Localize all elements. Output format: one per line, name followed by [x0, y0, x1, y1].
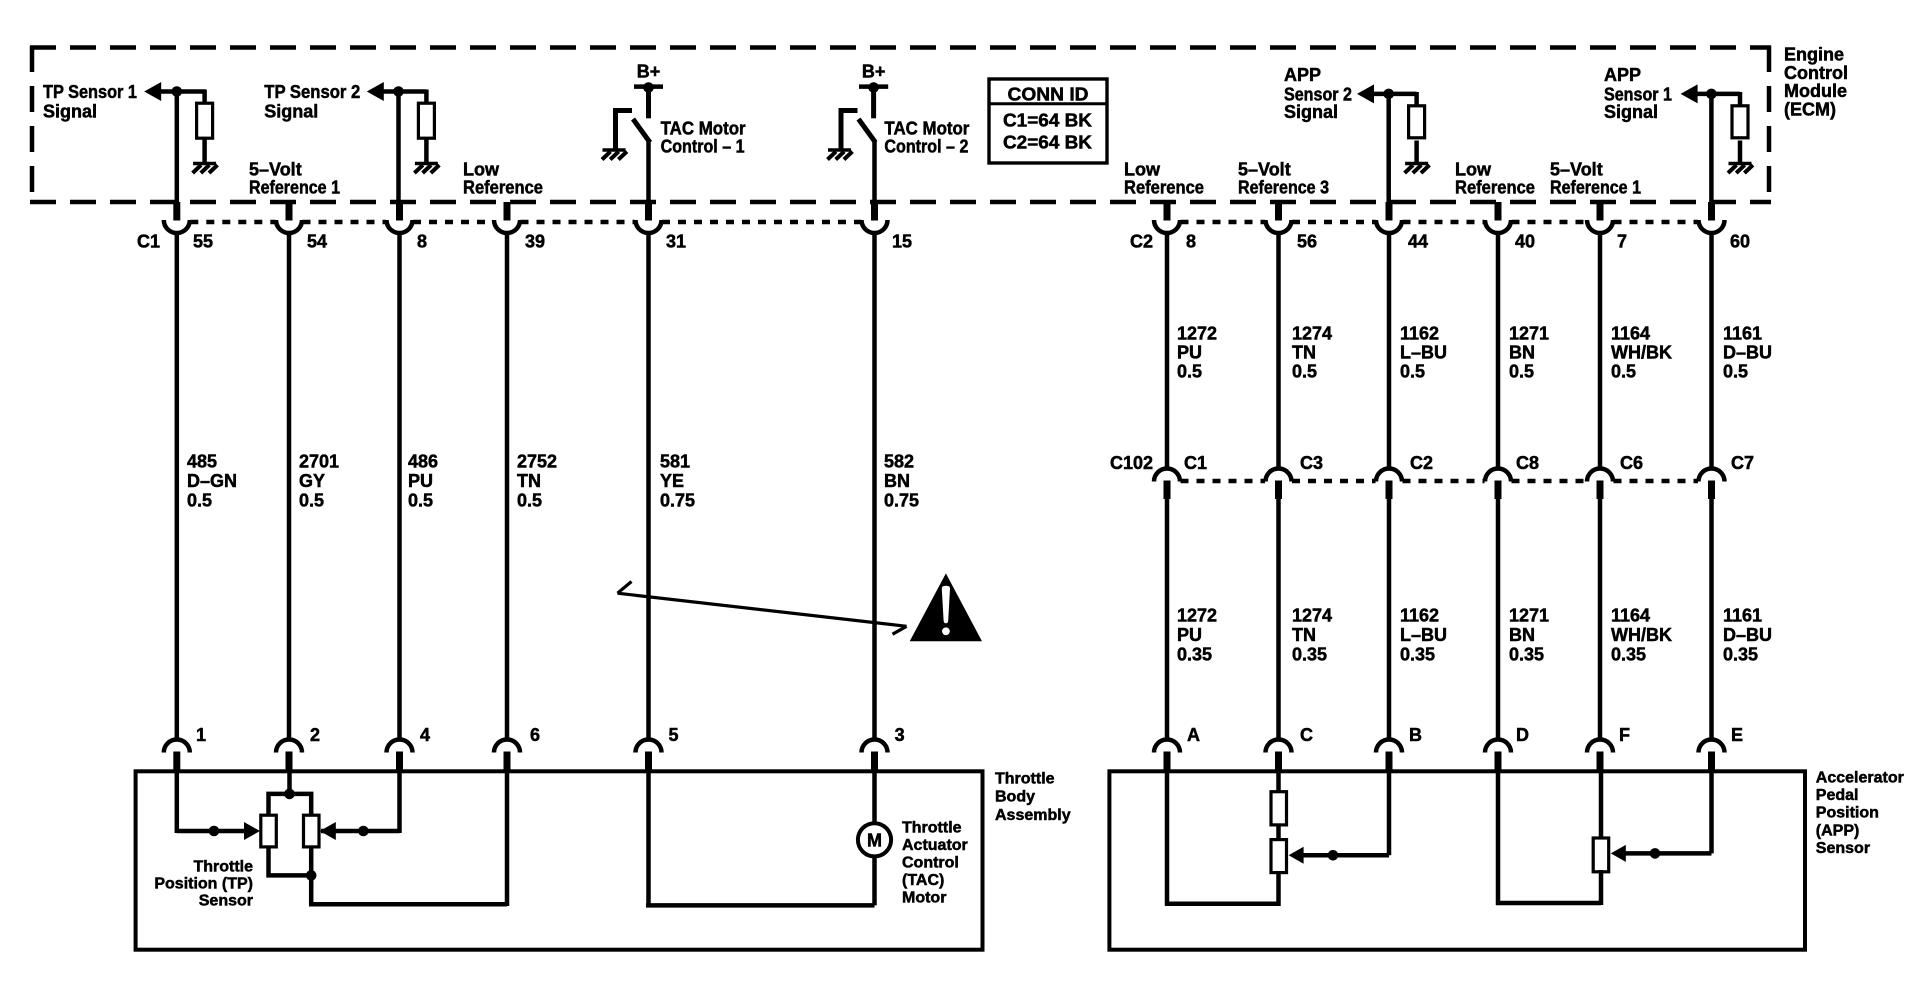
svg-text:D–GN: D–GN [187, 471, 237, 491]
svg-text:2752: 2752 [517, 452, 557, 472]
connector C2 pin 56 terminal [1266, 202, 1292, 233]
connector C1 pin 31 terminal [636, 202, 662, 233]
wire circuit 1272 upper segment [1165, 233, 1170, 469]
wire circuit 486 (pin to throttle body) [397, 233, 402, 742]
wire node 8 vertical inside ECM [396, 92, 401, 205]
junction dot node 60 [1706, 89, 1717, 100]
connector C1 pin 55 terminal [164, 202, 190, 233]
svg-text:1161: 1161 [1723, 606, 1762, 626]
connector C102 dashed interface line [1181, 479, 1699, 484]
svg-text:Signal: Signal [264, 102, 318, 122]
label wire 1274 TN 0.5 [1292, 323, 1332, 381]
svg-text:C2=64 BK: C2=64 BK [1003, 132, 1092, 152]
leader tail stroke at triangle [893, 626, 907, 634]
B+ stub contact TAC 2 [871, 87, 876, 119]
svg-text:C2: C2 [1410, 453, 1433, 473]
label 5-Volt Reference 1 (pin 7) [1550, 159, 1641, 197]
label APP Sensor 2 Signal [1284, 65, 1352, 122]
wire pin B into box [1387, 771, 1392, 855]
junction dot APP2 wiper [1328, 850, 1339, 861]
resistor R-TP1 (TP Sensor 1 pull-up) [197, 103, 213, 138]
B+ supply bar TAC 2 [859, 84, 888, 89]
label wire 485 D&#8211;GN 0.5 [187, 452, 237, 511]
svg-text:L–BU: L–BU [1400, 343, 1447, 363]
svg-text:TP Sensor 1: TP Sensor 1 [43, 82, 137, 102]
svg-text:Accelerator: Accelerator [1816, 770, 1904, 787]
label 5-Volt Reference 3 (pin 56) [1238, 159, 1329, 197]
svg-text:F: F [1619, 725, 1630, 745]
svg-text:15: 15 [892, 232, 912, 252]
svg-text:3: 3 [895, 725, 905, 745]
svg-text:PU: PU [1177, 625, 1202, 645]
svg-text:1272: 1272 [1177, 606, 1217, 626]
svg-text:C1: C1 [1184, 453, 1207, 473]
svg-text:Control – 2: Control – 2 [884, 136, 968, 156]
wire motor to bottom run [872, 855, 877, 905]
APP2 pot element rect [1271, 840, 1287, 873]
wire circuit 582 (pin to throttle body) [872, 233, 877, 742]
throttle body pin 1 terminal [164, 740, 190, 773]
svg-text:0.5: 0.5 [408, 491, 433, 511]
svg-text:0.35: 0.35 [1509, 645, 1544, 665]
label connector C1 and pin numbers [137, 232, 912, 252]
label TAC Motor Control - 2 [884, 118, 969, 156]
wire circuit 1274 upper segment [1276, 233, 1281, 469]
connector C1 pin 54 terminal [276, 202, 302, 233]
svg-text:C102: C102 [1110, 453, 1153, 473]
svg-text:0.5: 0.5 [1292, 362, 1317, 382]
throttle body pin 6 terminal [494, 740, 520, 773]
svg-text:0.35: 0.35 [1400, 645, 1435, 665]
ground chassis under switch S1 [602, 150, 627, 160]
svg-text:1272: 1272 [1177, 323, 1217, 343]
svg-text:C: C [1300, 725, 1313, 745]
svg-text:581: 581 [660, 452, 690, 472]
throttle body pin 3 terminal [862, 740, 888, 773]
junction dot TP top node 2 [284, 789, 295, 800]
svg-text:Actuator: Actuator [902, 837, 968, 854]
wire to resistor R-APP1 [1738, 92, 1743, 107]
svg-text:PU: PU [1177, 343, 1202, 363]
svg-text:Reference: Reference [463, 177, 543, 197]
svg-text:Position: Position [1816, 805, 1879, 822]
svg-text:TN: TN [1292, 343, 1316, 363]
wire circuit 1164 lower segment [1598, 498, 1603, 742]
svg-text:39: 39 [525, 232, 545, 252]
svg-text:0.5: 0.5 [187, 491, 212, 511]
svg-text:D–BU: D–BU [1723, 343, 1772, 363]
wire APP1 low reference run [1496, 901, 1601, 906]
svg-text:0.35: 0.35 [1723, 645, 1758, 665]
svg-text:C6: C6 [1620, 453, 1643, 473]
svg-text:Sensor: Sensor [1816, 840, 1870, 857]
label Low Reference (pin 8 C2) [1124, 159, 1204, 197]
svg-text:TAC Motor: TAC Motor [661, 118, 746, 138]
wire node 55 vertical inside ECM [175, 92, 180, 205]
svg-text:Body: Body [995, 789, 1035, 806]
svg-text:WH/BK: WH/BK [1611, 625, 1672, 645]
B+ supply bar TAC 1 [634, 84, 663, 89]
label wire 2701 GY 0.5 [299, 452, 339, 511]
connector C1 pin 8 terminal [387, 202, 413, 233]
svg-text:C2: C2 [1130, 232, 1153, 252]
wire circuit 1164 upper segment [1598, 233, 1603, 469]
label wire 1272 PU 0.5 [1177, 323, 1217, 381]
svg-text:2701: 2701 [299, 452, 339, 472]
junction dot B+ TAC 1 [643, 82, 654, 93]
ground chassis under R-APP2 [1405, 164, 1430, 174]
APP sensor pin F terminal [1587, 740, 1613, 773]
svg-text:M: M [867, 830, 882, 850]
switch S2 blade [859, 119, 876, 143]
TP sensor element right rect [304, 815, 320, 847]
connector C2 pin 8 terminal [1154, 202, 1180, 233]
wire pin 4 into box [397, 771, 402, 833]
wire circuit 1162 lower segment [1387, 498, 1392, 742]
label 5-Volt Reference 1 (pin 54) [249, 159, 340, 197]
wire TP Sensor 2 horizontal [383, 89, 426, 94]
svg-text:(APP): (APP) [1816, 822, 1860, 839]
svg-text:Throttle: Throttle [902, 819, 962, 836]
throttle body pin 2 terminal [276, 740, 302, 773]
wire pin 1 to TP wiper arrow [177, 829, 246, 834]
svg-text:0.5: 0.5 [1611, 362, 1636, 382]
APP sensor pin D terminal [1485, 740, 1511, 773]
wire pin 6 into box [505, 771, 510, 906]
junction dot node 44 [1383, 89, 1394, 100]
connector C2 dashed interface line [1181, 220, 1699, 225]
svg-text:Throttle: Throttle [995, 770, 1055, 787]
svg-text:C1: C1 [137, 232, 160, 252]
svg-text:D: D [1516, 725, 1529, 745]
APP2 fixed resistor rect [1271, 792, 1287, 825]
ground chassis under R-APP1 [1728, 164, 1753, 174]
svg-text:Engine: Engine [1784, 45, 1844, 65]
svg-text:5: 5 [669, 725, 679, 745]
svg-text:1274: 1274 [1292, 606, 1332, 626]
svg-text:APP: APP [1604, 65, 1641, 85]
svg-text:WH/BK: WH/BK [1611, 343, 1672, 363]
throttle body pin 5 terminal [636, 740, 662, 773]
leader line from warning symbol [618, 593, 907, 626]
svg-text:C1=64 BK: C1=64 BK [1003, 111, 1092, 131]
svg-text:2: 2 [310, 725, 320, 745]
throttle body pin 4 terminal [387, 740, 413, 773]
connector C102 pin C1 terminal [1154, 469, 1180, 499]
connector C102 pin C3 terminal [1266, 469, 1292, 499]
svg-text:Control: Control [1784, 63, 1848, 83]
wire TAC motor bottom run [646, 903, 875, 908]
TAC motor M1 circle [858, 823, 891, 856]
wire to resistor R-APP2 [1414, 92, 1419, 107]
arrow APP1 wiper (points left) [1611, 845, 1626, 862]
ground chassis under switch S2 [828, 150, 853, 160]
svg-text:BN: BN [1509, 625, 1535, 645]
wire node 44 vertical inside ECM [1386, 94, 1391, 204]
label Throttle Position (TP) Sensor [154, 858, 253, 909]
wire R-TP1 to ground [202, 138, 207, 163]
label wire 1162 L&#8211;BU 0.35 [1400, 606, 1447, 665]
connector C1 dashed interface line [190, 220, 861, 225]
svg-text:1: 1 [196, 725, 206, 745]
svg-text:Sensor: Sensor [199, 892, 253, 909]
svg-text:6: 6 [530, 725, 540, 745]
wire pin 1 into box [175, 771, 180, 833]
label wire 582 BN 0.75 [884, 452, 919, 511]
svg-text:E: E [1731, 725, 1743, 745]
svg-text:44: 44 [1408, 232, 1428, 252]
label wire 1271 BN 0.35 [1509, 606, 1549, 665]
wire circuit 1271 lower segment [1496, 498, 1501, 742]
arrow TP wiper right (points left) [320, 822, 336, 840]
label Throttle Actuator Control (TAC) Motor [902, 819, 968, 906]
wire circuit 1161 upper segment [1709, 233, 1714, 469]
APP sensor pin A terminal [1154, 740, 1180, 773]
svg-text:5–Volt: 5–Volt [1238, 159, 1291, 179]
wire pin F into box [1599, 771, 1604, 840]
svg-text:BN: BN [1509, 343, 1535, 363]
svg-text:55: 55 [193, 232, 213, 252]
CONN ID table box [989, 79, 1107, 163]
svg-text:Motor: Motor [902, 889, 946, 906]
svg-text:0.35: 0.35 [1611, 645, 1646, 665]
label wire 1164 WH/BK 0.35 [1611, 606, 1672, 665]
connector C2 pin 7 terminal [1587, 202, 1613, 233]
wire R-TP2 to ground [424, 138, 429, 163]
wire R-APP1 to ground [1738, 141, 1743, 164]
wire circuit 2701 (pin to throttle body) [287, 233, 292, 742]
wire circuit 1272 lower segment [1165, 498, 1170, 742]
ECM module dashed boundary box [30, 46, 1771, 203]
ground chassis under R-TP1 [193, 164, 218, 174]
label TP Sensor 1 Signal [43, 82, 137, 122]
svg-text:0.5: 0.5 [1509, 362, 1534, 382]
connector C2 pin 60 terminal [1699, 202, 1725, 233]
svg-text:1271: 1271 [1509, 323, 1549, 343]
svg-text:TN: TN [517, 471, 541, 491]
connector C102 pin C2 terminal [1376, 469, 1402, 499]
label wire 1274 TN 0.35 [1292, 606, 1332, 665]
svg-text:Low: Low [463, 159, 500, 179]
svg-text:0.5: 0.5 [1177, 362, 1202, 382]
warning triangle symbol [910, 573, 982, 641]
svg-text:1161: 1161 [1723, 323, 1762, 343]
label wire 486 PU 0.5 [408, 452, 438, 511]
svg-text:1162: 1162 [1400, 606, 1439, 626]
svg-text:4: 4 [420, 725, 430, 745]
svg-text:Signal: Signal [1604, 102, 1658, 122]
wire R-APP2 to ground [1414, 141, 1419, 164]
svg-text:C7: C7 [1731, 453, 1754, 473]
svg-text:Reference 1: Reference 1 [249, 177, 340, 197]
junction dot TP bottom [306, 870, 317, 881]
label Accelerator Pedal Position (APP) Sensor [1816, 770, 1904, 857]
svg-text:Reference 1: Reference 1 [1550, 177, 1641, 197]
svg-text:1164: 1164 [1611, 323, 1650, 343]
wire APP1 wiper horizontal [1624, 851, 1712, 856]
label wire 2752 TN 0.5 [517, 452, 557, 511]
wire TP low reference horizontal run [309, 902, 507, 907]
svg-text:54: 54 [307, 232, 327, 252]
junction dot TP wiper right [358, 826, 369, 837]
svg-text:0.35: 0.35 [1292, 645, 1327, 665]
svg-text:1274: 1274 [1292, 323, 1332, 343]
connector C1 pin 15 terminal [862, 202, 888, 233]
wire pin A into box [1165, 771, 1170, 906]
APP sensor pin E terminal [1699, 740, 1725, 773]
arrow TP Sensor 2 Signal (points left) [367, 82, 384, 101]
svg-text:TAC Motor: TAC Motor [884, 118, 969, 138]
TP bottom bracket [269, 846, 312, 875]
svg-text:APP: APP [1284, 65, 1321, 85]
svg-text:582: 582 [884, 452, 914, 472]
svg-text:Control: Control [902, 854, 959, 871]
APP sensor pin B terminal [1376, 740, 1402, 773]
arrow TP wiper left (points right) [244, 822, 260, 840]
svg-text:Signal: Signal [43, 102, 97, 122]
B+ stub contact TAC 1 [646, 87, 651, 119]
wire circuit 1162 upper segment [1387, 233, 1392, 469]
label wire 1162 L&#8211;BU 0.5 [1400, 323, 1447, 381]
wire between APP2 resistors [1276, 825, 1281, 841]
svg-text:60: 60 [1730, 232, 1750, 252]
wire node 15 inside ECM [872, 141, 877, 204]
label wire 1161 D&#8211;BU 0.35 [1723, 606, 1772, 665]
wire pin C into box [1276, 771, 1281, 793]
svg-text:56: 56 [1297, 232, 1317, 252]
label wire 1164 WH/BK 0.5 [1611, 323, 1672, 381]
svg-text:B+: B+ [862, 61, 886, 81]
label throttle body pin numbers [196, 725, 905, 745]
junction dot B+ TAC 2 [868, 82, 879, 93]
svg-text:D–BU: D–BU [1723, 625, 1772, 645]
svg-text:(TAC): (TAC) [902, 872, 944, 889]
svg-text:(ECM): (ECM) [1784, 99, 1836, 119]
svg-text:Pedal: Pedal [1816, 787, 1859, 804]
svg-text:TN: TN [1292, 625, 1316, 645]
svg-text:0.5: 0.5 [1400, 362, 1425, 382]
connector C102 pin C6 terminal [1587, 469, 1613, 499]
TP top bracket [269, 794, 312, 816]
wire circuit 1161 lower segment [1709, 498, 1714, 742]
resistor R-APP1 (APP Sensor 1 pull-up) [1732, 106, 1748, 138]
connector C1 pin 39 terminal [494, 202, 520, 233]
svg-text:31: 31 [666, 232, 686, 252]
junction dot node 55 [172, 86, 183, 97]
wire to resistor R-TP2 [424, 90, 429, 105]
svg-text:5–Volt: 5–Volt [1550, 159, 1603, 179]
label TP Sensor 2 Signal [264, 82, 360, 122]
resistor R-APP2 (APP Sensor 2 pull-up) [1409, 106, 1425, 138]
connector C2 pin 44 terminal [1376, 202, 1402, 233]
arrow TP Sensor 1 Signal (points left) [144, 82, 161, 101]
wire circuit 1274 lower segment [1276, 498, 1281, 742]
svg-text:486: 486 [408, 452, 438, 472]
svg-text:40: 40 [1515, 232, 1535, 252]
label connector C102 and cavity letters [1110, 453, 1754, 473]
svg-text:B+: B+ [637, 61, 661, 81]
wire pin 3 into box [872, 771, 877, 824]
svg-text:GY: GY [299, 471, 325, 491]
label Low Reference (pin 40) [1455, 159, 1535, 197]
TP sensor element left rect [261, 815, 277, 847]
svg-text:Reference: Reference [1455, 177, 1535, 197]
svg-text:BN: BN [884, 471, 910, 491]
svg-text:Reference: Reference [1124, 177, 1204, 197]
svg-text:Module: Module [1784, 81, 1847, 101]
wire pin 2 into box [287, 771, 292, 795]
switch S2 fixed contact L-shape [841, 111, 858, 149]
svg-text:Signal: Signal [1284, 102, 1338, 122]
svg-text:0.75: 0.75 [884, 491, 919, 511]
svg-text:1271: 1271 [1509, 606, 1549, 626]
svg-text:Throttle: Throttle [193, 858, 253, 875]
APP1 pot element rect [1593, 838, 1609, 872]
label Low Reference (pin 39) [463, 159, 543, 197]
wire to resistor R-TP1 [202, 90, 207, 105]
connector C102 pin C8 terminal [1485, 469, 1511, 499]
svg-text:1162: 1162 [1400, 323, 1439, 343]
connector C102 pin C7 terminal [1699, 469, 1725, 499]
wire APP2 wiper horizontal [1302, 853, 1389, 858]
svg-text:A: A [1187, 725, 1200, 745]
svg-text:Position (TP): Position (TP) [154, 875, 253, 892]
wire APP Sensor 2 horizontal [1373, 92, 1417, 97]
svg-text:0.5: 0.5 [517, 491, 542, 511]
svg-text:B: B [1409, 725, 1422, 745]
svg-text:YE: YE [660, 471, 684, 491]
svg-text:Low: Low [1455, 159, 1492, 179]
wire pin 4 to TP wiper arrow [321, 829, 400, 834]
arrow APP Sensor 2 Signal (points left) [1357, 84, 1374, 103]
wire APP Sensor 1 horizontal [1696, 92, 1740, 97]
wire pin E into box [1709, 771, 1714, 853]
wire circuit 581 (pin to throttle body) [646, 233, 651, 742]
label APP sensor pin letters [1187, 725, 1743, 745]
wire circuit 1271 upper segment [1496, 233, 1501, 469]
leader arrowhead barb [618, 582, 632, 594]
label TAC Motor Control - 1 [661, 118, 746, 156]
wire pin 5 into box [646, 771, 651, 905]
svg-text:PU: PU [408, 471, 433, 491]
svg-text:0.5: 0.5 [1723, 362, 1748, 382]
label Engine Control Module (ECM) [1784, 45, 1848, 120]
svg-text:5–Volt: 5–Volt [249, 159, 302, 179]
svg-text:Low: Low [1124, 159, 1161, 179]
svg-text:0.75: 0.75 [660, 491, 695, 511]
label Throttle Body Assembly [995, 770, 1071, 824]
svg-text:TP Sensor 2: TP Sensor 2 [264, 82, 360, 102]
arrow APP Sensor 1 Signal (points left) [1681, 84, 1698, 103]
switch S1 fixed contact L-shape [616, 111, 633, 149]
ground chassis under R-TP2 [414, 164, 439, 174]
svg-text:0.35: 0.35 [1177, 645, 1212, 665]
wire node 60 vertical inside ECM [1709, 94, 1714, 204]
arrow APP2 wiper (points left) [1289, 847, 1304, 864]
Throttle Body Assembly box [136, 771, 983, 949]
svg-text:C8: C8 [1516, 453, 1539, 473]
wire APP2 pot to low run [1276, 871, 1281, 906]
junction dot node 8 (C1) [393, 86, 404, 97]
wire pin D into box [1496, 771, 1501, 905]
svg-text:8: 8 [1186, 232, 1196, 252]
junction dot APP1 wiper [1650, 848, 1661, 859]
svg-text:L–BU: L–BU [1400, 625, 1447, 645]
svg-text:CONN ID: CONN ID [1008, 84, 1089, 104]
svg-text:C3: C3 [1300, 453, 1323, 473]
svg-text:Control – 1: Control – 1 [661, 136, 745, 156]
svg-text:Reference 3: Reference 3 [1238, 177, 1329, 197]
